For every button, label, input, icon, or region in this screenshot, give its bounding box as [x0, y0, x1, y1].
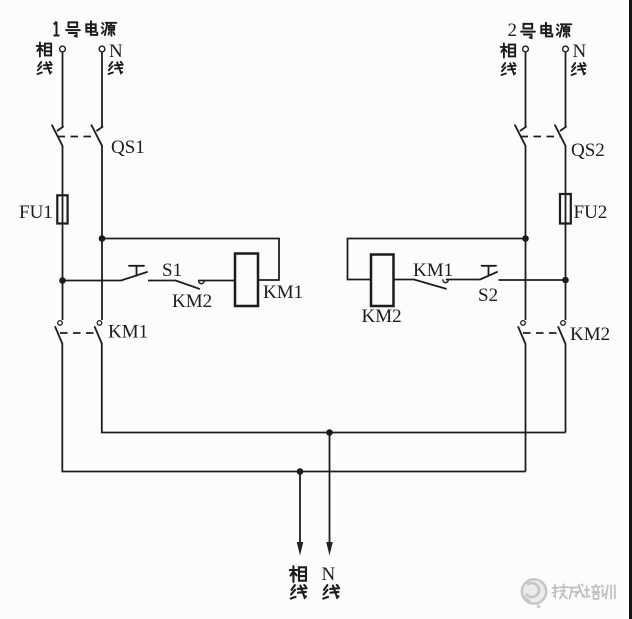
- svg-text:KM1: KM1: [413, 260, 453, 281]
- node right N / control tap: [562, 277, 569, 284]
- svg-text:KM1: KM1: [108, 322, 148, 343]
- contact KM2 main pole B: [558, 321, 565, 344]
- wire output N with arrow: [326, 433, 333, 556]
- svg-text:FU1: FU1: [19, 202, 53, 223]
- wire right phase upper: [525, 52, 527, 128]
- contact KM1 main dashed link: [60, 332, 98, 334]
- svg-text:KM1: KM1: [263, 282, 303, 303]
- svg-text:N: N: [573, 41, 587, 62]
- watermark text 技成培训: [552, 584, 615, 599]
- svg-text:N: N: [322, 564, 336, 585]
- wire KM2 contact to coil KM1: [198, 280, 235, 282]
- svg-text:S1: S1: [162, 260, 182, 281]
- wire right phase lower: [525, 344, 527, 472]
- node left phase / control tap: [59, 277, 66, 284]
- wire KM1 contact to S2: [446, 279, 480, 281]
- wire left N lower to bus: [102, 344, 566, 433]
- label 线 (output N): [323, 585, 339, 599]
- wire left control bottom: [63, 280, 121, 282]
- switch QS2 mechanical dashed link: [521, 136, 561, 138]
- terminal circle right N: [563, 46, 569, 52]
- terminal circle left N: [99, 46, 105, 52]
- contact KM2 NC (left branch): [176, 281, 205, 289]
- svg-text:KM2: KM2: [570, 324, 610, 345]
- wire left N upper: [101, 52, 103, 128]
- label 相线 (output phase): [290, 566, 307, 598]
- switch QS1 mechanical dashed link: [58, 136, 98, 138]
- wire left phase lower to bus: [62, 344, 525, 472]
- label 相线 (right phase wire label): [501, 43, 516, 75]
- node N bus output tap: [326, 429, 333, 436]
- svg-text:FU2: FU2: [574, 202, 608, 223]
- push button S2: [480, 266, 497, 280]
- fuse FU1: [57, 195, 67, 223]
- svg-text:KM2: KM2: [172, 291, 212, 312]
- wire left N mid: [101, 146, 103, 320]
- wire left control top bypass: [102, 239, 279, 281]
- contact KM2 main pole A: [518, 321, 525, 344]
- svg-text:2: 2: [508, 20, 518, 41]
- wire S2 to right N line: [499, 279, 566, 281]
- terminal circle left phase: [60, 46, 66, 52]
- node right phase / control tap: [522, 235, 529, 242]
- svg-text:KM2: KM2: [362, 306, 402, 327]
- right edge black strip: [629, 0, 632, 619]
- wire right control top bypass: [348, 239, 526, 280]
- contact KM1 main pole B: [95, 321, 102, 344]
- svg-text:S2: S2: [478, 285, 498, 306]
- node left N / control tap: [99, 235, 106, 242]
- switch QS1 pole A blade: [52, 125, 63, 146]
- wire left phase mid: [62, 146, 64, 320]
- switch QS2 pole A blade: [515, 125, 526, 146]
- wire right N mid: [565, 146, 567, 320]
- label 线 under right N: [572, 63, 586, 75]
- label 2号电源 (source 2 title): [508, 20, 572, 41]
- wire S1 to KM2 contact: [148, 280, 176, 282]
- svg-text:N: N: [109, 41, 123, 62]
- wire right N upper: [565, 52, 567, 128]
- wire coil KM2 to KM1 contact: [394, 279, 415, 281]
- label 线 under left N: [109, 62, 123, 74]
- push button S1: [121, 266, 147, 281]
- switch QS1 pole B blade: [92, 125, 103, 146]
- coil KM2: [371, 255, 394, 307]
- svg-text:QS2: QS2: [571, 140, 605, 161]
- wire left phase upper: [62, 52, 64, 128]
- watermark logo circle: [522, 579, 546, 608]
- svg-text:QS1: QS1: [111, 137, 145, 158]
- coil KM1: [235, 254, 258, 307]
- wire right N lower: [565, 344, 567, 433]
- label 相线 (left phase wire label): [37, 42, 52, 74]
- switch QS2 pole B blade: [555, 125, 566, 146]
- wire output phase with arrow: [297, 472, 304, 556]
- terminal circle right phase: [523, 46, 529, 52]
- label 1号电源 (source 1 title): [54, 21, 117, 36]
- fuse FU2: [560, 194, 571, 224]
- contact KM2 main dashed link: [523, 332, 561, 334]
- wire right phase mid: [525, 146, 527, 320]
- contact KM1 NC (right branch): [414, 280, 448, 289]
- contact KM1 main pole A: [55, 321, 62, 344]
- node phase bus output tap: [297, 468, 304, 475]
